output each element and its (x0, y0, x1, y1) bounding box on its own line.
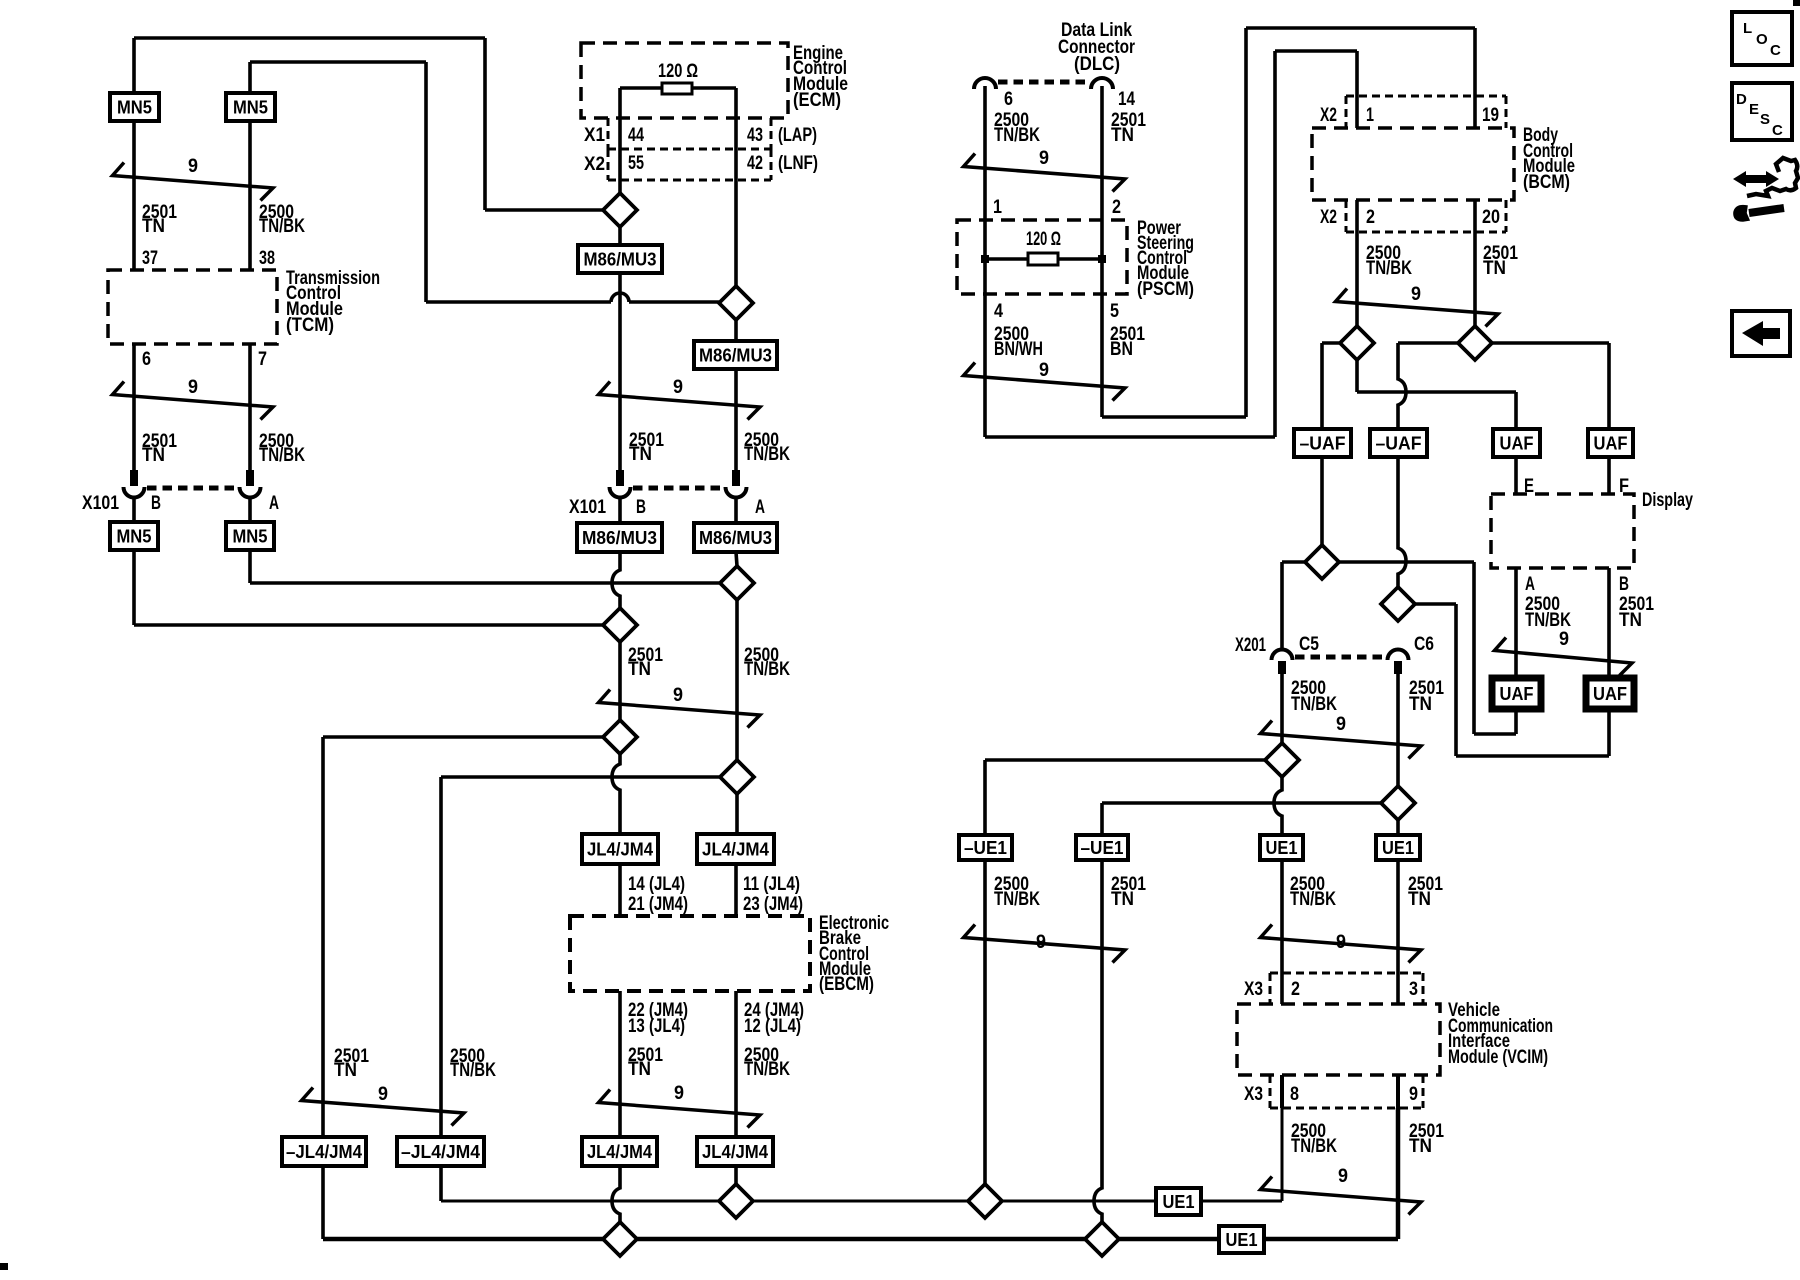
svg-text:9: 9 (188, 377, 198, 398)
svg-text:E: E (1524, 476, 1534, 497)
svg-text:44: 44 (628, 125, 644, 146)
svg-text:37: 37 (142, 248, 158, 269)
svg-text:TN/BK: TN/BK (1525, 610, 1571, 631)
svg-text:2: 2 (1291, 979, 1300, 1000)
svg-text:12 (JL4): 12 (JL4) (744, 1016, 801, 1037)
svg-text:6: 6 (142, 349, 151, 370)
svg-text:X101: X101 (569, 497, 606, 518)
svg-text:B: B (151, 493, 161, 514)
svg-text:UE1: UE1 (1382, 838, 1414, 858)
svg-text:13 (JL4): 13 (JL4) (628, 1016, 685, 1037)
svg-text:TN/BK: TN/BK (450, 1060, 496, 1081)
svg-text:–UAF: –UAF (1300, 434, 1346, 454)
svg-text:A: A (269, 493, 279, 514)
svg-text:23 (JM4): 23 (JM4) (743, 894, 803, 915)
svg-text:M86/MU3: M86/MU3 (582, 528, 657, 548)
svg-text:–JL4/JM4: –JL4/JM4 (401, 1142, 480, 1162)
svg-text:TN/BK: TN/BK (994, 889, 1040, 910)
svg-text:X101: X101 (82, 493, 119, 514)
svg-text:TN: TN (1409, 694, 1432, 715)
svg-text:120 Ω: 120 Ω (658, 61, 698, 82)
svg-text:X201: X201 (1235, 635, 1266, 656)
svg-text:43: 43 (747, 125, 763, 146)
svg-text:TN: TN (334, 1060, 357, 1081)
svg-text:TN: TN (1111, 125, 1134, 146)
svg-text:Module (VCIM): Module (VCIM) (1448, 1047, 1548, 1068)
svg-text:2: 2 (1366, 207, 1375, 228)
svg-text:1: 1 (1366, 105, 1374, 126)
svg-text:X3: X3 (1244, 1084, 1263, 1105)
svg-text:(TCM): (TCM) (286, 315, 334, 336)
svg-text:C: C (1772, 122, 1783, 139)
svg-text:1: 1 (993, 197, 1002, 218)
svg-text:9: 9 (1039, 360, 1049, 381)
svg-text:TN/BK: TN/BK (1290, 889, 1336, 910)
svg-text:TN/BK: TN/BK (1291, 694, 1337, 715)
svg-text:TN: TN (628, 1059, 651, 1080)
svg-text:2: 2 (1112, 197, 1121, 218)
svg-text:TN/BK: TN/BK (744, 1059, 790, 1080)
svg-text:M86/MU3: M86/MU3 (699, 528, 772, 548)
svg-text:(BCM): (BCM) (1523, 172, 1570, 193)
svg-text:JL4/JM4: JL4/JM4 (587, 840, 653, 860)
svg-text:3: 3 (1409, 979, 1418, 1000)
svg-text:TN: TN (1483, 258, 1506, 279)
svg-text:TN/BK: TN/BK (744, 444, 790, 465)
svg-text:55: 55 (628, 153, 644, 174)
svg-text:TN/BK: TN/BK (994, 125, 1040, 146)
svg-text:TN: TN (1408, 889, 1431, 910)
svg-text:8: 8 (1290, 1084, 1299, 1105)
svg-text:F: F (1619, 476, 1629, 497)
svg-text:11 (JL4): 11 (JL4) (743, 874, 800, 895)
svg-text:4: 4 (994, 301, 1003, 322)
svg-text:C6: C6 (1414, 634, 1434, 655)
svg-text:X3: X3 (1244, 979, 1263, 1000)
svg-text:9: 9 (1559, 629, 1569, 650)
svg-text:X2: X2 (1320, 207, 1337, 228)
svg-text:TN: TN (1111, 889, 1134, 910)
svg-text:BN/WH: BN/WH (994, 339, 1043, 360)
svg-text:9: 9 (1336, 932, 1346, 953)
svg-text:M86/MU3: M86/MU3 (584, 250, 657, 270)
svg-text:TN: TN (1619, 610, 1642, 631)
svg-text:JL4/JM4: JL4/JM4 (702, 1142, 768, 1162)
svg-text:X2: X2 (1320, 105, 1337, 126)
svg-text:C: C (1770, 42, 1781, 59)
svg-text:MN5: MN5 (117, 98, 152, 118)
svg-text:(ECM): (ECM) (793, 90, 841, 111)
svg-text:UAF: UAF (1500, 684, 1534, 704)
svg-text:9: 9 (378, 1084, 388, 1105)
svg-text:38: 38 (259, 248, 275, 269)
svg-text:C5: C5 (1299, 634, 1319, 655)
svg-text:9: 9 (1409, 1084, 1418, 1105)
svg-text:9: 9 (1036, 932, 1046, 953)
svg-text:7: 7 (258, 349, 267, 370)
svg-text:UE1: UE1 (1266, 838, 1298, 858)
svg-text:UAF: UAF (1594, 434, 1628, 454)
svg-text:9: 9 (1039, 148, 1049, 169)
svg-text:TN: TN (1409, 1136, 1432, 1157)
svg-text:B: B (636, 497, 646, 518)
svg-text:9: 9 (673, 685, 683, 706)
svg-text:JL4/JM4: JL4/JM4 (702, 840, 769, 860)
svg-text:9: 9 (1338, 1166, 1348, 1187)
svg-text:TN: TN (142, 445, 165, 466)
svg-text:(PSCM): (PSCM) (1137, 279, 1194, 300)
svg-text:(LAP): (LAP) (778, 125, 817, 146)
svg-text:120 Ω: 120 Ω (1026, 229, 1061, 250)
svg-text:TN/BK: TN/BK (259, 216, 305, 237)
svg-text:(LNF): (LNF) (778, 153, 818, 174)
svg-text:UAF: UAF (1500, 434, 1534, 454)
svg-text:9: 9 (674, 1083, 684, 1104)
svg-text:MN5: MN5 (233, 527, 268, 547)
svg-text:A: A (1525, 574, 1535, 595)
svg-text:TN: TN (629, 444, 652, 465)
svg-text:21 (JM4): 21 (JM4) (628, 894, 688, 915)
svg-text:14: 14 (1118, 89, 1135, 110)
svg-text:JL4/JM4: JL4/JM4 (587, 1142, 652, 1162)
svg-text:D: D (1736, 91, 1747, 108)
svg-text:–UAF: –UAF (1376, 434, 1422, 454)
svg-text:B: B (1619, 574, 1629, 595)
svg-text:TN/BK: TN/BK (744, 659, 790, 680)
svg-text:–UE1: –UE1 (1081, 838, 1124, 858)
svg-text:TN/BK: TN/BK (1291, 1136, 1337, 1157)
svg-text:–JL4/JM4: –JL4/JM4 (286, 1142, 362, 1162)
svg-text:(EBCM): (EBCM) (819, 974, 874, 995)
svg-text:TN/BK: TN/BK (259, 445, 305, 466)
svg-text:–UE1: –UE1 (964, 838, 1007, 858)
svg-text:9: 9 (188, 156, 198, 177)
svg-text:6: 6 (1004, 89, 1013, 110)
svg-text:A: A (755, 497, 765, 518)
svg-text:TN/BK: TN/BK (1366, 258, 1412, 279)
svg-text:UE1: UE1 (1226, 1230, 1258, 1250)
svg-text:MN5: MN5 (233, 98, 268, 118)
svg-text:TN: TN (628, 659, 651, 680)
svg-text:O: O (1756, 31, 1768, 48)
svg-text:E: E (1749, 101, 1759, 118)
svg-text:Display: Display (1642, 490, 1693, 511)
svg-text:42: 42 (747, 153, 763, 174)
svg-text:20: 20 (1482, 207, 1500, 228)
svg-text:MN5: MN5 (117, 527, 152, 547)
svg-text:S: S (1760, 111, 1770, 128)
svg-text:9: 9 (1336, 714, 1346, 735)
svg-text:TN: TN (142, 216, 165, 237)
svg-text:X2: X2 (584, 154, 605, 175)
svg-text:L: L (1743, 20, 1752, 37)
svg-text:5: 5 (1110, 301, 1119, 322)
svg-text:9: 9 (1411, 284, 1421, 305)
svg-text:X1: X1 (584, 125, 605, 146)
svg-text:UAF: UAF (1593, 684, 1627, 704)
svg-text:UE1: UE1 (1163, 1192, 1195, 1212)
svg-text:BN: BN (1110, 339, 1133, 360)
svg-text:M86/MU3: M86/MU3 (699, 346, 772, 366)
svg-text:(DLC): (DLC) (1074, 54, 1120, 75)
svg-text:9: 9 (673, 377, 683, 398)
svg-text:19: 19 (1482, 105, 1499, 126)
svg-text:14 (JL4): 14 (JL4) (628, 874, 685, 895)
